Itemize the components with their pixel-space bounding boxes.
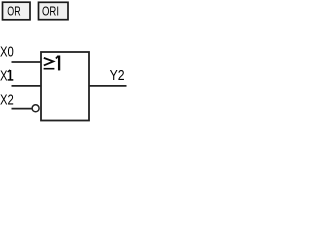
svg-text:OR: OR xyxy=(7,4,20,19)
svg-text:ORI: ORI xyxy=(42,4,59,19)
svg-text:Y2: Y2 xyxy=(110,67,125,84)
svg-text:X: X xyxy=(0,68,8,85)
svg-text:X0: X0 xyxy=(0,44,14,61)
svg-text:X2: X2 xyxy=(0,92,14,109)
